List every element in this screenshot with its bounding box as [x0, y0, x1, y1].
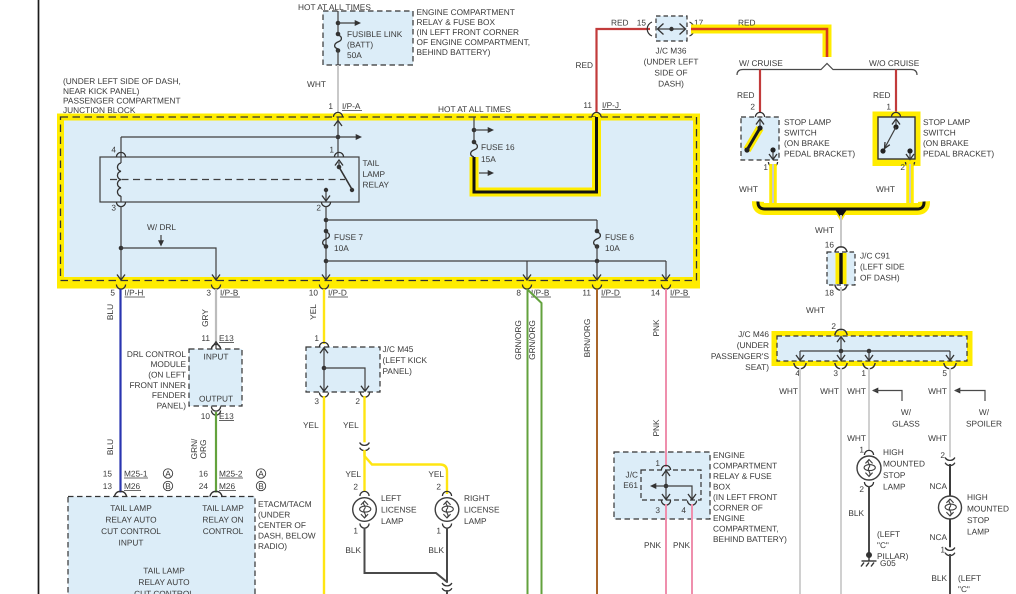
- svg-text:11: 11: [583, 100, 592, 110]
- node fuse7 top: [324, 218, 329, 223]
- svg-text:(IN LEFT FRONT CORNER: (IN LEFT FRONT CORNER: [417, 27, 520, 37]
- joining brace bus (highlighted): [758, 202, 924, 210]
- fuse box caption: [417, 7, 531, 57]
- svg-text:(UNDER: (UNDER: [737, 340, 769, 350]
- svg-text:I/P-D: I/P-D: [601, 288, 620, 298]
- svg-text:STOP: STOP: [967, 515, 990, 525]
- wire BLK right HMSL off page: [949, 554, 951, 594]
- relay coil: [117, 163, 121, 196]
- value label fusible link: [347, 29, 403, 60]
- svg-text:HIGH: HIGH: [967, 492, 988, 502]
- J/C E61 inner box: [641, 470, 701, 500]
- svg-text:FRONT INNER: FRONT INNER: [129, 380, 186, 390]
- svg-text:PNK: PNK: [651, 319, 661, 337]
- svg-text:STOP LAMP: STOP LAMP: [784, 117, 832, 127]
- svg-text:B: B: [165, 481, 171, 491]
- svg-text:WHT: WHT: [876, 184, 895, 194]
- wire NCA to right HMSL: [949, 464, 951, 496]
- wire WHT M46 pin3 off page: [840, 368, 842, 594]
- svg-text:ENGINE COMPARTMENT: ENGINE COMPARTMENT: [417, 7, 515, 17]
- S1 contact pin 1: [770, 147, 775, 152]
- relay switch lever: [337, 165, 342, 170]
- svg-text:CONTROL: CONTROL: [203, 526, 244, 536]
- S2 contact pin 2: [907, 148, 912, 153]
- node junction on I/P-A feed: [336, 135, 341, 140]
- W/ SPOILER pointer: [954, 388, 960, 394]
- svg-text:W/ CRUISE: W/ CRUISE: [739, 58, 783, 68]
- circled A: [163, 469, 172, 478]
- svg-text:WHT: WHT: [307, 79, 326, 89]
- pin 1 left license lamp: [360, 524, 369, 529]
- red wire from I/P-J up to J/C M36: [597, 29, 651, 112]
- wire GRY I/P-B to DRL module: [215, 289, 217, 345]
- wire YEL branch to right license lamp: [365, 451, 448, 494]
- wire GRN/ORG pair from I/P-B pin 8: [527, 289, 529, 594]
- svg-text:DASH): DASH): [658, 79, 684, 89]
- wire WHT S1 out (highlighted): [769, 164, 777, 206]
- wire BRN/ORG from I/P-D pin 11: [596, 289, 598, 594]
- svg-text:DRL CONTROL: DRL CONTROL: [127, 349, 187, 359]
- M46 caption: [711, 329, 770, 372]
- svg-text:SWITCH: SWITCH: [923, 128, 956, 138]
- svg-text:SEAT): SEAT): [745, 362, 769, 372]
- C91 caption: [860, 251, 905, 283]
- pins 4 3 1 5 M46: [794, 363, 806, 369]
- svg-text:GRN/ORG: GRN/ORG: [527, 320, 537, 360]
- pin 5 I/P-H: [116, 285, 125, 290]
- arrow tap to other circuit: [338, 22, 355, 24]
- svg-text:E13: E13: [219, 411, 234, 421]
- svg-text:LAMP: LAMP: [967, 527, 990, 537]
- pin arc into ETACM: [114, 491, 126, 497]
- svg-text:10A: 10A: [605, 243, 620, 253]
- J/C M45 box: [306, 347, 380, 392]
- wire to fuse 6: [326, 219, 597, 221]
- svg-text:RED: RED: [873, 90, 891, 100]
- svg-text:10: 10: [201, 411, 211, 421]
- svg-text:LAMP: LAMP: [381, 516, 404, 526]
- svg-text:INPUT: INPUT: [119, 538, 144, 548]
- page border line: [38, 0, 40, 594]
- svg-text:(LEFT KICK: (LEFT KICK: [383, 355, 428, 365]
- svg-text:BLK: BLK: [428, 545, 444, 555]
- pin 3 M45: [319, 393, 328, 398]
- svg-text:LAMP: LAMP: [464, 516, 487, 526]
- pin 8 I/P-B: [522, 285, 531, 290]
- svg-text:15: 15: [637, 18, 647, 28]
- svg-text:TAIL LAMP: TAIL LAMP: [202, 503, 244, 513]
- J/C C91 box: [827, 252, 855, 285]
- svg-text:ENGINE: ENGINE: [713, 450, 745, 460]
- svg-text:1: 1: [314, 333, 319, 343]
- option split brace W/ CRUISE vs W/O CRUISE: [737, 64, 917, 76]
- wire BLK right license lamp to splice: [446, 528, 448, 584]
- svg-text:FUSE 6: FUSE 6: [605, 232, 634, 242]
- svg-text:11: 11: [201, 333, 210, 343]
- (LEFT "C" PILLAR) caption right: [958, 573, 981, 594]
- svg-text:YEL: YEL: [303, 420, 319, 430]
- stop lamp switch S1 (w/ cruise) box: [741, 117, 779, 160]
- svg-text:MODULE: MODULE: [151, 359, 187, 369]
- svg-text:RED: RED: [611, 18, 629, 28]
- ETACM caption: [258, 499, 316, 551]
- svg-text:1: 1: [328, 101, 333, 111]
- svg-text:PASSENGER'S: PASSENGER'S: [711, 351, 770, 361]
- svg-text:2: 2: [316, 203, 321, 213]
- junction block (passenger compartment) highlighted box: [57, 117, 700, 289]
- svg-text:PASSENGER COMPARTMENT: PASSENGER COMPARTMENT: [63, 96, 181, 106]
- svg-text:J/C M46: J/C M46: [738, 329, 769, 339]
- svg-text:CENTER OF: CENTER OF: [258, 520, 306, 530]
- S1 caption: [784, 117, 855, 159]
- down arrows to bottom pins: [526, 261, 528, 280]
- svg-text:8: 8: [516, 288, 521, 298]
- svg-text:50A: 50A: [347, 50, 362, 60]
- svg-text:PNK: PNK: [673, 540, 691, 550]
- wire relay pin3 down to I/P-H: [120, 206, 122, 280]
- svg-text:1: 1: [329, 145, 334, 155]
- pin 1 right license lamp: [442, 524, 451, 529]
- svg-text:RELAY & FUSE BOX: RELAY & FUSE BOX: [417, 17, 496, 27]
- wire DRL branch: [121, 248, 216, 280]
- svg-text:16: 16: [825, 240, 835, 250]
- svg-text:11: 11: [582, 288, 591, 298]
- ETACM/TACM module box: [68, 497, 255, 594]
- svg-text:SPOILER: SPOILER: [966, 419, 1002, 429]
- wire YEL I/P-D to J/C M45: [323, 289, 325, 344]
- wire WHT C91 to M46: [840, 287, 842, 332]
- svg-text:1: 1: [763, 162, 768, 172]
- svg-text:RELAY ON: RELAY ON: [202, 515, 243, 525]
- svg-text:J/C M45: J/C M45: [383, 344, 414, 354]
- circled A: [256, 469, 265, 478]
- fuse F16 15A: [472, 140, 477, 145]
- fuse F6 10A: [596, 220, 598, 231]
- svg-text:YEL: YEL: [345, 469, 361, 479]
- svg-text:INPUT: INPUT: [204, 352, 229, 362]
- relay dashed link coil to switch: [110, 179, 345, 181]
- wire WHT M46 pin4 off page: [799, 368, 801, 594]
- S2 lever: [893, 124, 898, 129]
- svg-text:PEDAL BRACKET): PEDAL BRACKET): [784, 149, 855, 159]
- pin 14 I/P-B: [661, 285, 670, 290]
- svg-text:CORNER OF: CORNER OF: [713, 503, 763, 513]
- svg-text:I/P-D: I/P-D: [328, 288, 347, 298]
- inline connector on YEL: [360, 442, 370, 451]
- svg-text:WHT: WHT: [779, 386, 798, 396]
- E61 internal wires: [662, 471, 670, 477]
- svg-text:RED: RED: [737, 90, 755, 100]
- E61 caption: [713, 450, 787, 544]
- svg-text:I/P-B: I/P-B: [670, 288, 689, 298]
- DRL control module box: [189, 349, 242, 406]
- svg-text:(UNDER LEFT SIDE OF DASH,: (UNDER LEFT SIDE OF DASH,: [63, 76, 181, 86]
- right HMSL caption: [967, 492, 1009, 537]
- svg-text:WHT: WHT: [820, 386, 839, 396]
- svg-text:FUSE 7: FUSE 7: [334, 232, 363, 242]
- svg-text:ENGINE: ENGINE: [713, 513, 745, 523]
- svg-text:DASH, BELOW: DASH, BELOW: [258, 531, 316, 541]
- svg-text:LICENSE: LICENSE: [464, 505, 500, 515]
- svg-text:(UNDER LEFT: (UNDER LEFT: [644, 57, 699, 67]
- svg-text:W/: W/: [979, 407, 990, 417]
- svg-text:TAIL: TAIL: [363, 158, 380, 168]
- node (fusible link top tap): [336, 21, 341, 26]
- svg-text:BEHIND BATTERY): BEHIND BATTERY): [713, 534, 787, 544]
- svg-text:WHT: WHT: [815, 225, 834, 235]
- svg-text:1: 1: [655, 458, 660, 468]
- svg-text:OUTPUT: OUTPUT: [199, 394, 233, 404]
- svg-text:SWITCH: SWITCH: [784, 128, 817, 138]
- svg-text:(BATT): (BATT): [347, 40, 373, 50]
- svg-text:RED: RED: [738, 18, 756, 28]
- svg-text:5: 5: [110, 288, 115, 298]
- svg-text:(LEFT: (LEFT: [877, 529, 900, 539]
- svg-text:A: A: [258, 468, 264, 478]
- svg-text:OF DASH): OF DASH): [860, 273, 900, 283]
- node below fuse 7: [324, 259, 329, 264]
- svg-text:(ON BRAKE: (ON BRAKE: [923, 138, 969, 148]
- svg-text:4: 4: [681, 505, 686, 515]
- svg-text:YEL: YEL: [343, 420, 359, 430]
- svg-text:WHT: WHT: [928, 386, 947, 396]
- svg-text:14: 14: [651, 288, 661, 298]
- svg-text:PEDAL BRACKET): PEDAL BRACKET): [923, 149, 994, 159]
- svg-text:I/P-H: I/P-H: [125, 288, 144, 298]
- svg-text:BEHIND BATTERY): BEHIND BATTERY): [417, 47, 491, 57]
- svg-text:15: 15: [103, 469, 113, 479]
- svg-text:YEL: YEL: [428, 469, 444, 479]
- svg-text:BLU: BLU: [105, 304, 115, 320]
- svg-text:3: 3: [655, 505, 660, 515]
- svg-text:16: 16: [199, 469, 209, 479]
- pin 11 I/P-D: [592, 285, 601, 290]
- svg-text:(LEFT SIDE: (LEFT SIDE: [860, 262, 905, 272]
- J/C M46 highlighted box: [772, 331, 973, 366]
- wire NCA below right HMSL: [949, 519, 951, 548]
- fusible link FL (BATT) 50A: [336, 32, 341, 37]
- pin 2 M45: [360, 393, 369, 398]
- svg-text:W/: W/: [901, 407, 912, 417]
- pin 4 E61: [687, 501, 696, 506]
- pin 2 left HMSL: [864, 482, 873, 487]
- svg-text:1: 1: [859, 445, 864, 455]
- svg-text:NCA: NCA: [929, 532, 947, 542]
- svg-text:M25-1: M25-1: [124, 469, 148, 479]
- fuse 16 highlighted feed path: [474, 117, 597, 192]
- wire YEL M45 pin2 to license lamps: [363, 396, 365, 443]
- svg-text:2: 2: [831, 321, 836, 331]
- wire BLK left HMSL to ground: [868, 486, 870, 553]
- left HMSL caption: [883, 447, 925, 492]
- pin 3 I/P-B: [211, 285, 220, 290]
- M46 internal wires: [837, 337, 845, 343]
- svg-text:PNK: PNK: [644, 540, 662, 550]
- svg-text:STOP LAMP: STOP LAMP: [923, 117, 971, 127]
- svg-text:"C": "C": [958, 584, 970, 594]
- J/C E61 outer box (engine compartment relay and fuse box): [614, 452, 710, 519]
- wire into fusible link: [337, 11, 339, 34]
- M36 internal double arrow: [658, 28, 685, 30]
- svg-text:"C": "C": [877, 540, 889, 550]
- svg-text:GRN/ORG: GRN/ORG: [513, 320, 523, 360]
- wire bus to relay pin 4 with arrow tap: [121, 136, 356, 138]
- svg-text:TAIL LAMP: TAIL LAMP: [110, 503, 152, 513]
- svg-text:10: 10: [309, 288, 319, 298]
- svg-text:BRN/ORG: BRN/ORG: [582, 319, 592, 358]
- wire BLK left license lamp to splice: [365, 528, 448, 583]
- svg-text:TAIL LAMP: TAIL LAMP: [143, 566, 185, 576]
- svg-text:G05: G05: [880, 558, 896, 568]
- svg-text:B: B: [258, 481, 264, 491]
- svg-text:13: 13: [103, 481, 113, 491]
- wire YEL M45 pin3 down off page: [323, 396, 325, 594]
- svg-text:WHT: WHT: [847, 433, 866, 443]
- wire RED w/cruise drop: [759, 70, 761, 113]
- svg-text:CUT CONTROL: CUT CONTROL: [101, 526, 161, 536]
- svg-text:(ON BRAKE: (ON BRAKE: [784, 138, 830, 148]
- svg-text:24: 24: [199, 481, 209, 491]
- wire WHT M46 pin1 to HMSL: [868, 368, 870, 450]
- svg-text:2: 2: [940, 450, 945, 460]
- svg-text:OF ENGINE COMPARTMENT,: OF ENGINE COMPARTMENT,: [417, 37, 531, 47]
- svg-text:2: 2: [355, 396, 360, 406]
- pin 3 relay: [116, 202, 125, 207]
- wires PNK below E61: [665, 504, 667, 594]
- svg-text:J/C C91: J/C C91: [860, 251, 890, 261]
- svg-text:1: 1: [436, 526, 441, 536]
- C91 bus bar highlighted: [836, 253, 847, 284]
- svg-text:NEAR KICK PANEL): NEAR KICK PANEL): [63, 86, 140, 96]
- svg-text:BOX: BOX: [713, 482, 731, 492]
- svg-text:2: 2: [436, 482, 441, 492]
- engine compartment fuse box (fusible link): [323, 11, 413, 65]
- svg-text:10A: 10A: [334, 243, 349, 253]
- DRL module caption: [127, 349, 187, 411]
- fuse F7 10A: [324, 229, 329, 234]
- pin 10 I/P-D: [319, 285, 328, 290]
- svg-text:BLK: BLK: [931, 573, 947, 583]
- svg-text:MOUNTED: MOUNTED: [883, 459, 925, 469]
- svg-text:LEFT: LEFT: [381, 493, 401, 503]
- svg-text:ETACM/TACM: ETACM/TACM: [258, 499, 312, 509]
- wire WHT M46 pin5 to HMSL: [949, 368, 951, 458]
- svg-text:GLASS: GLASS: [892, 419, 920, 429]
- svg-text:2: 2: [353, 482, 358, 492]
- svg-text:4: 4: [111, 145, 116, 155]
- svg-text:HIGH: HIGH: [883, 447, 904, 457]
- svg-text:BLK: BLK: [848, 508, 864, 518]
- wire BLU I/P-H to ETACM: [119, 289, 121, 493]
- svg-text:2: 2: [750, 102, 755, 112]
- svg-text:SIDE OF: SIDE OF: [654, 68, 687, 78]
- svg-text:GRY: GRY: [200, 309, 210, 327]
- svg-text:JUNCTION BLOCK: JUNCTION BLOCK: [63, 105, 136, 115]
- wire WHT fusible link to I/P-A: [337, 65, 339, 112]
- svg-text:LICENSE: LICENSE: [381, 505, 417, 515]
- svg-text:3: 3: [111, 203, 116, 213]
- svg-text:RADIO): RADIO): [258, 541, 287, 551]
- svg-text:BLK: BLK: [345, 545, 361, 555]
- svg-text:5: 5: [942, 368, 947, 378]
- svg-text:COMPARTMENT,: COMPARTMENT,: [713, 524, 779, 534]
- wire relay pin 2 down: [325, 206, 327, 280]
- svg-text:E61: E61: [623, 480, 638, 490]
- wire GRN/ORG DRL output: [215, 412, 217, 493]
- svg-text:I/P-B: I/P-B: [220, 288, 239, 298]
- svg-text:2: 2: [859, 484, 864, 494]
- svg-text:MOUNTED: MOUNTED: [967, 504, 1009, 514]
- arrow tap below fuse16: [479, 172, 488, 174]
- wire PNK from I/P-B pin 14: [665, 289, 667, 466]
- svg-text:(LEFT: (LEFT: [958, 573, 981, 583]
- svg-text:LAMP: LAMP: [363, 169, 386, 179]
- W/ GLASS pointer: [872, 388, 878, 394]
- circled B: [256, 481, 265, 490]
- svg-text:15A: 15A: [481, 154, 496, 164]
- svg-text:3: 3: [314, 396, 319, 406]
- svg-text:M25-2: M25-2: [219, 469, 243, 479]
- svg-text:RELAY: RELAY: [363, 180, 390, 190]
- high mounted stop lamp (w/ spoiler): [939, 496, 962, 519]
- svg-text:YEL: YEL: [308, 304, 318, 320]
- inline connector at splice: [442, 583, 452, 592]
- S1 lever highlighted: [747, 128, 760, 150]
- svg-text:W/O CRUISE: W/O CRUISE: [869, 58, 920, 68]
- svg-text:2: 2: [900, 162, 905, 172]
- svg-text:M26: M26: [219, 481, 236, 491]
- svg-text:CUT CONTROL: CUT CONTROL: [134, 589, 194, 594]
- svg-text:I/P-J: I/P-J: [602, 100, 619, 110]
- svg-text:18: 18: [825, 288, 835, 298]
- svg-text:RED: RED: [575, 60, 593, 70]
- svg-text:COMPARTMENT: COMPARTMENT: [713, 461, 777, 471]
- svg-text:STOP: STOP: [883, 470, 906, 480]
- svg-text:3: 3: [833, 368, 838, 378]
- wire PNK into E61: [665, 452, 667, 467]
- svg-text:ORG: ORG: [198, 440, 208, 459]
- svg-text:1: 1: [886, 102, 891, 112]
- J/C M36 box: [656, 16, 687, 41]
- svg-text:A: A: [165, 468, 171, 478]
- svg-text:3: 3: [206, 288, 211, 298]
- svg-text:(IN LEFT FRONT: (IN LEFT FRONT: [713, 492, 777, 502]
- svg-text:WHT: WHT: [847, 386, 866, 396]
- junction block caption: [63, 76, 181, 115]
- pin 10 E13: [211, 407, 220, 412]
- stop lamp switch S2 (w/o cruise) highlighted box: [873, 112, 921, 167]
- svg-text:M26: M26: [124, 481, 141, 491]
- wire from I/P-A down to tail lamp relay pin 1: [337, 117, 339, 157]
- svg-text:WHT: WHT: [739, 184, 758, 194]
- svg-text:FUSE 16: FUSE 16: [481, 142, 515, 152]
- (LEFT "C" PILLAR) caption: [877, 529, 909, 561]
- svg-text:WHT: WHT: [806, 305, 825, 315]
- right license lamp E2: [435, 498, 459, 522]
- svg-text:PANEL): PANEL): [157, 401, 187, 411]
- wire WHT to J/C C91: [840, 215, 842, 248]
- svg-text:1: 1: [353, 526, 358, 536]
- svg-text:PANEL): PANEL): [383, 366, 413, 376]
- S2 caption: [923, 117, 994, 159]
- wire bus to I/P-B pins: [326, 260, 666, 262]
- ground G05: [861, 553, 877, 567]
- svg-text:I/P-A: I/P-A: [342, 101, 361, 111]
- svg-text:RELAY AUTO: RELAY AUTO: [138, 577, 190, 587]
- svg-text:NCA: NCA: [929, 481, 947, 491]
- svg-text:J/C M36: J/C M36: [656, 46, 687, 56]
- tail lamp relay K1 box: [100, 157, 359, 202]
